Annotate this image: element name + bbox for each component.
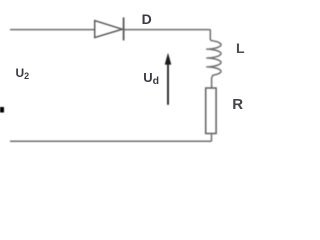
label L (236, 40, 245, 56)
wire bottom (10, 140, 212, 142)
arrow Ud direction (165, 53, 172, 105)
label D (142, 11, 152, 27)
diode D (95, 17, 124, 40)
label U2 (16, 66, 30, 81)
resistor R body (206, 88, 216, 134)
label R (232, 96, 243, 113)
wire top-right segment with corner (124, 29, 211, 31)
black square mark left edge (0, 107, 4, 113)
wire top-left segment (10, 29, 95, 31)
wire resistor bottom stub (211, 134, 213, 142)
inductor L coil (207, 30, 221, 89)
label Ud (143, 70, 159, 87)
